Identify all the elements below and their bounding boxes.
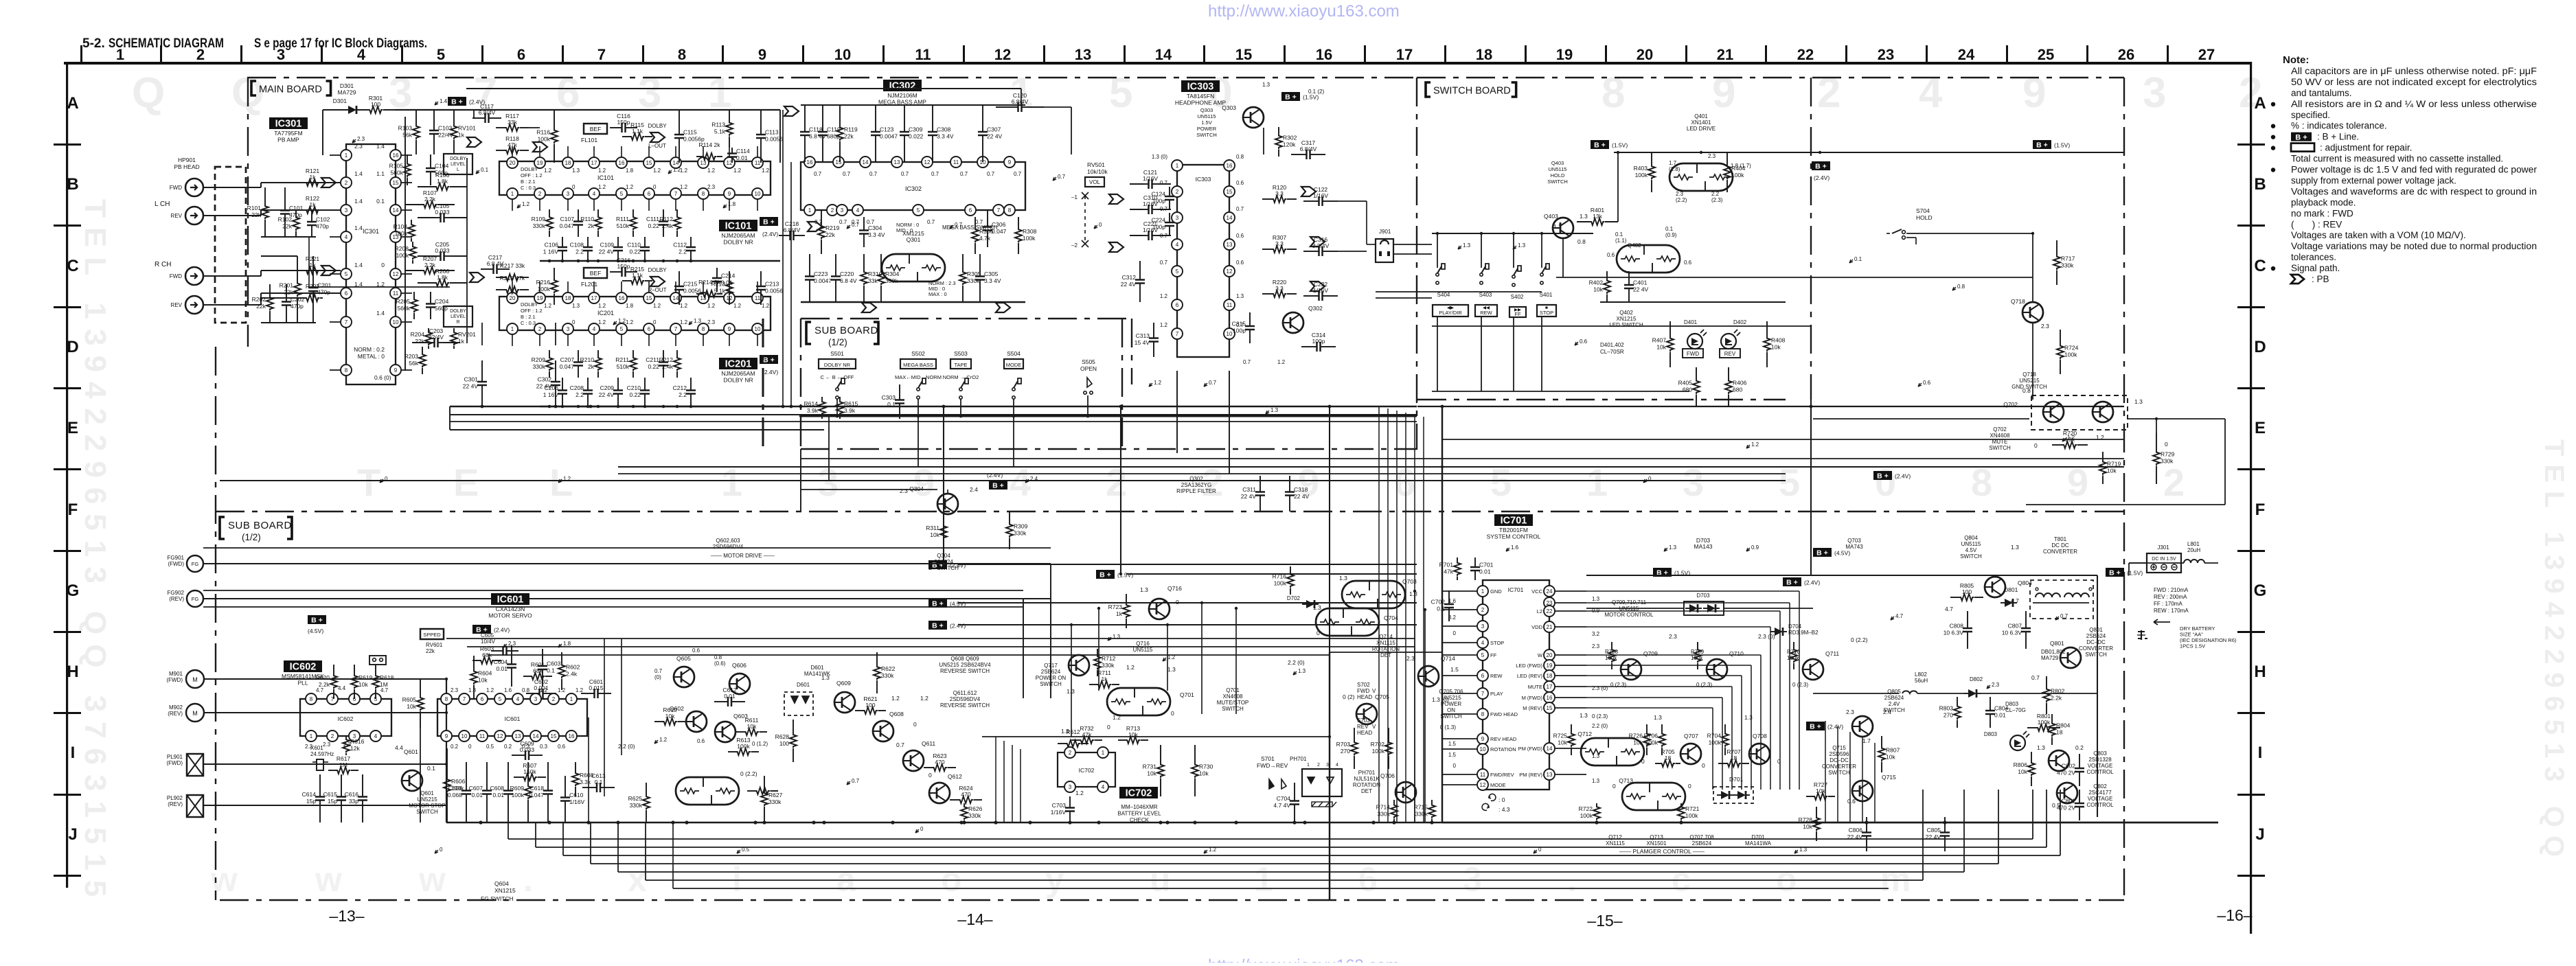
IC201 label box <box>719 358 757 369</box>
svg-text:1.3: 1.3 <box>694 318 702 324</box>
svg-text:3: 3 <box>1326 763 1329 768</box>
capacitor C110 <box>644 237 646 242</box>
svg-text:IC601: IC601 <box>497 595 524 606</box>
row tick right 7 <box>2237 712 2265 714</box>
IC101 pin 17 <box>589 157 600 168</box>
svg-text:24: 24 <box>1547 588 1553 595</box>
svg-text:0.0056: 0.0056 <box>683 288 701 295</box>
svg-text:NJM2106M: NJM2106M <box>887 92 917 99</box>
svg-text:10k: 10k <box>1771 344 1781 351</box>
resistor R608 <box>575 762 576 772</box>
svg-text:VCC: VCC <box>1531 588 1542 595</box>
svg-text:0.2: 0.2 <box>451 744 459 750</box>
svg-text:0.1: 0.1 <box>1437 606 1445 612</box>
transistor Q803 <box>2049 750 2069 771</box>
svg-text:C614: C614 <box>302 791 317 798</box>
svg-text:C : 0.3: C : 0.3 <box>521 185 536 191</box>
wire vertical rail <box>1810 400 1812 575</box>
svg-text:1.2: 1.2 <box>1160 322 1168 328</box>
svg-text:HEADPHONE AMP: HEADPHONE AMP <box>1175 100 1226 106</box>
B+ badge IC201 <box>760 355 778 364</box>
wire j901 line <box>1376 297 1432 299</box>
IC701 pin 20 W <box>1544 649 1555 660</box>
svg-text:PLAY: PLAY <box>1490 691 1503 697</box>
capacitor C216 <box>610 271 616 273</box>
capacitor C109 <box>617 237 619 242</box>
svg-text:100k: 100k <box>737 743 750 750</box>
svg-text:D802: D802 <box>1970 676 1983 682</box>
IC101 pin 14 <box>670 157 681 168</box>
svg-text:0.6: 0.6 <box>558 744 566 750</box>
svg-text:14: 14 <box>1547 746 1553 752</box>
svg-text:REV: REV <box>1724 351 1736 357</box>
svg-text:8: 8 <box>1008 207 1012 214</box>
dolby level L box <box>444 154 472 174</box>
svg-text:DC DC: DC DC <box>2051 542 2069 549</box>
wire <box>246 275 261 277</box>
svg-text:ROTATION: ROTATION <box>1490 746 1516 752</box>
svg-text:0.7: 0.7 <box>839 219 847 225</box>
capacitor C608 <box>508 762 509 785</box>
svg-text:1.2: 1.2 <box>680 168 688 174</box>
svg-text:Q304: Q304 <box>909 485 924 492</box>
svg-text:FG: FG <box>192 596 199 602</box>
svg-text:11: 11 <box>479 733 486 739</box>
svg-text:1/16V: 1/16V <box>1051 809 1067 816</box>
svg-text:MODE: MODE <box>1490 782 1506 788</box>
capacitor C105 <box>418 217 435 218</box>
B+ badge IC303 <box>1281 92 1300 101</box>
svg-text:R618: R618 <box>380 674 394 681</box>
IC101 pin 5 <box>616 188 627 199</box>
connector 2pin <box>369 656 386 665</box>
svg-text:TB2001FM: TB2001FM <box>1499 527 1528 533</box>
svg-text:20: 20 <box>510 295 516 301</box>
svg-text:1.3: 1.3 <box>1236 293 1244 299</box>
resistor R707 <box>1718 763 1726 764</box>
IC602 label box <box>284 660 322 672</box>
wire <box>1813 418 2029 419</box>
wire <box>800 449 801 511</box>
svg-text:UN5115: UN5115 <box>1133 647 1153 653</box>
capacitor C307 <box>982 105 983 126</box>
column tick 15 <box>1284 45 1286 62</box>
svg-text:3.3 4V: 3.3 4V <box>984 277 1001 284</box>
wire vertical <box>790 162 792 406</box>
svg-text:2: 2 <box>345 180 348 186</box>
svg-text:HOLD: HOLD <box>1916 214 1933 221</box>
svg-text:0: 0 <box>468 744 472 750</box>
svg-text:1.2: 1.2 <box>653 303 661 309</box>
svg-text:0.7: 0.7 <box>1209 380 1217 386</box>
svg-text:(1.5V): (1.5V) <box>1303 94 1319 101</box>
svg-text:I: I <box>2258 744 2263 762</box>
svg-text:M902: M902 <box>169 704 183 711</box>
svg-text:100k: 100k <box>512 792 525 798</box>
svg-text:9: 9 <box>2022 69 2046 117</box>
svg-text:OFF : 1.2: OFF : 1.2 <box>521 172 543 179</box>
resistor R604 <box>473 656 475 670</box>
svg-text:1.6: 1.6 <box>1511 544 1519 551</box>
svg-text:2.2: 2.2 <box>575 249 584 255</box>
wire <box>322 110 323 155</box>
sub board outline top <box>216 511 2124 512</box>
svg-text:LED DRIVE: LED DRIVE <box>1687 126 1716 132</box>
svg-text:22: 22 <box>1797 46 1814 63</box>
IC303 pin 16 <box>1224 160 1235 171</box>
svg-text:1.4: 1.4 <box>376 143 385 150</box>
svg-text:R606: R606 <box>451 778 466 785</box>
resistor R801 <box>2027 727 2036 728</box>
svg-text:1: 1 <box>1176 163 1179 169</box>
wire b+ rail <box>323 109 348 111</box>
svg-text:IC702: IC702 <box>1079 767 1095 774</box>
svg-text:RV601: RV601 <box>426 642 443 648</box>
svg-text:R101: R101 <box>247 205 262 211</box>
svg-text:2: 2 <box>538 191 542 197</box>
svg-text:5: 5 <box>1109 69 1132 117</box>
IC701 label box <box>1494 514 1533 526</box>
svg-text:F: F <box>68 501 78 519</box>
capacitor C318 <box>1289 476 1290 486</box>
svg-text:V: V <box>1372 724 1376 730</box>
svg-text:SWITCH: SWITCH <box>1960 553 1982 560</box>
resistor R403 <box>1651 152 1652 165</box>
svg-text:5: 5 <box>499 696 502 702</box>
svg-text:STOP: STOP <box>1540 310 1553 316</box>
dolby level R box <box>444 306 472 327</box>
IC302 pin 13 <box>891 157 902 168</box>
svg-text:http://www.xiaoyu163.com: http://www.xiaoyu163.com <box>1208 956 1400 963</box>
svg-text:100k: 100k <box>1635 172 1648 179</box>
svg-text:14: 14 <box>533 733 539 739</box>
resistor R120 <box>1262 198 1272 200</box>
resistor R404 <box>1726 152 1728 165</box>
svg-text:DOLBY: DOLBY <box>450 309 466 314</box>
svg-text:330k: 330k <box>533 222 546 229</box>
row tick right 9 <box>2237 875 2265 877</box>
svg-text:RIPPLE FILTER: RIPPLE FILTER <box>1176 488 1216 494</box>
svg-text:MUTE/STOP: MUTE/STOP <box>1217 700 1249 706</box>
svg-text:2.4: 2.4 <box>1030 476 1038 482</box>
svg-text:Voltage variations may be note: Voltage variations may be noted due to n… <box>2291 241 2537 251</box>
svg-text:C804: C804 <box>1994 705 2009 712</box>
svg-text:Q707,708: Q707,708 <box>1689 834 1714 840</box>
svg-text:ON: ON <box>1447 707 1455 713</box>
IC201 pin 20 <box>507 292 518 303</box>
svg-text:2: 2 <box>1317 763 1320 768</box>
wire <box>1229 371 1230 474</box>
svg-text:LED (FWD): LED (FWD) <box>1516 663 1542 669</box>
wire connector 273 <box>203 187 246 188</box>
svg-text:R111: R111 <box>616 216 629 222</box>
wire fan vertical 2 <box>562 823 564 855</box>
svg-text:C113: C113 <box>765 129 779 136</box>
IC302 pin 7 <box>993 205 1004 216</box>
svg-text:6.8 4V: 6.8 4V <box>809 133 826 140</box>
svg-text:150p: 150p <box>617 119 630 126</box>
resistor R216 <box>554 268 555 279</box>
svg-text:0: 0 <box>1107 724 1110 731</box>
svg-text:Q609: Q609 <box>836 680 851 687</box>
svg-text:4: 4 <box>1919 69 1943 117</box>
resistor R112 <box>676 209 678 216</box>
svg-text:0.7: 0.7 <box>2031 674 2040 681</box>
svg-text:2.3: 2.3 <box>323 741 331 748</box>
svg-text:UN5215 2SB624BV4: UN5215 2SB624BV4 <box>939 662 991 668</box>
resistor R613 <box>728 751 736 752</box>
svg-text:RV101: RV101 <box>458 125 476 132</box>
svg-text:R213: R213 <box>711 281 726 288</box>
B+ badge rail 1 <box>928 560 947 569</box>
svg-text:0 (2.3): 0 (2.3) <box>1592 713 1608 720</box>
svg-text:4: 4 <box>345 234 348 240</box>
capacitor C209 <box>617 378 619 384</box>
svg-text:1.3: 1.3 <box>1654 714 1662 721</box>
svg-text:PM (FWD): PM (FWD) <box>1518 746 1543 752</box>
transistor Q601 <box>402 770 422 791</box>
svg-text:0.7: 0.7 <box>1243 359 1251 365</box>
svg-text:C605: C605 <box>481 632 494 639</box>
svg-text:0: 0 <box>2165 441 2168 448</box>
svg-text:1PCS 1.5V: 1PCS 1.5V <box>2180 643 2205 649</box>
svg-text:8: 8 <box>1602 69 1625 117</box>
IC201 pin 7 <box>670 323 681 334</box>
svg-text:2.2k: 2.2k <box>424 262 436 268</box>
transistor Q605 <box>674 667 694 687</box>
svg-text:B +: B + <box>2036 141 2048 150</box>
svg-text:S503: S503 <box>954 350 968 357</box>
resistor R609 <box>527 762 529 785</box>
svg-text:22 4V: 22 4V <box>1241 493 1257 500</box>
svg-text:1.3: 1.3 <box>1580 712 1588 719</box>
svg-text:1.5V: 1.5V <box>1201 119 1211 126</box>
svg-text:MOTOR STOP: MOTOR STOP <box>409 803 446 809</box>
svg-text:R625: R625 <box>628 795 643 802</box>
wire vertical rail lower <box>1329 652 1330 900</box>
forest rail right <box>466 158 468 343</box>
wire power riser 4 <box>1874 743 1876 823</box>
svg-text:1.3: 1.3 <box>1744 714 1753 721</box>
svg-text:M: M <box>192 710 198 717</box>
IC201 pin 10 <box>752 323 763 334</box>
svg-text:A: A <box>2254 94 2266 113</box>
svg-text:2.2: 2.2 <box>679 391 687 398</box>
transistor Q704 pair <box>1316 608 1379 636</box>
svg-text:PLAY/DIR: PLAY/DIR <box>1439 310 1462 316</box>
upper sub board inner divider <box>1121 319 1123 449</box>
svg-text:2.3: 2.3 <box>1846 709 1854 715</box>
svg-text:1: 1 <box>1254 860 1273 899</box>
svg-text:tolerances.: tolerances. <box>2291 252 2336 262</box>
transistor Q602 <box>686 711 707 732</box>
B+ badge IC101 <box>760 217 778 226</box>
svg-text:3.9k: 3.9k <box>844 407 856 414</box>
svg-text:E: E <box>2255 419 2266 437</box>
svg-text:(2.4V): (2.4V) <box>950 562 966 569</box>
svg-text:—— MOTOR DRIVE ——: —— MOTOR DRIVE —— <box>711 553 775 559</box>
svg-text:6: 6 <box>1358 860 1378 899</box>
svg-text:17: 17 <box>1547 684 1553 690</box>
svg-text:OFF : 1.2: OFF : 1.2 <box>521 308 543 314</box>
svg-text:RV501: RV501 <box>1087 161 1105 168</box>
svg-text:19: 19 <box>537 295 543 301</box>
svg-text:560k: 560k <box>398 305 411 312</box>
svg-text:0: 0 <box>1171 710 1174 717</box>
svg-text:R406: R406 <box>1733 380 1747 387</box>
IC601 pin 2 <box>548 693 559 704</box>
resistor R101 <box>264 187 266 205</box>
svg-text:1.2: 1.2 <box>618 318 626 324</box>
svg-text:10k: 10k <box>2107 468 2117 474</box>
wire connector 314 <box>203 215 246 216</box>
B+ badge 2.4V main <box>448 97 466 106</box>
svg-text:3.9k: 3.9k <box>807 407 819 414</box>
capacitor C106 <box>562 237 563 242</box>
IC301 pin 5 <box>341 268 352 279</box>
svg-text:A: A <box>67 94 78 113</box>
svg-text:2: 2 <box>1817 69 1840 117</box>
IC302 pin 9 <box>1004 157 1015 168</box>
svg-text:1.2: 1.2 <box>920 695 928 702</box>
wire <box>1513 317 1514 391</box>
svg-text:9: 9 <box>394 367 398 373</box>
svg-text:2.2 (0): 2.2 (0) <box>1592 723 1608 729</box>
svg-text:0.7: 0.7 <box>654 668 663 674</box>
svg-text:IC702: IC702 <box>1126 788 1152 799</box>
svg-text:470p: 470p <box>317 289 330 296</box>
resistor R713 <box>1118 739 1126 741</box>
svg-text:12: 12 <box>393 271 399 277</box>
svg-text:0: 0 <box>920 826 924 832</box>
svg-text:1M: 1M <box>339 761 347 768</box>
svg-text:330k: 330k <box>1415 811 1428 818</box>
wire bus under IC101 <box>540 260 780 262</box>
column tick 23 <box>1926 45 1928 62</box>
capacitor C603 <box>542 649 543 660</box>
svg-text:Q712: Q712 <box>1608 834 1622 840</box>
svg-text:2.3: 2.3 <box>707 319 716 325</box>
wire fan vertical 0 <box>508 823 509 839</box>
svg-text:0.7: 0.7 <box>955 222 963 228</box>
svg-text:21: 21 <box>1547 624 1553 630</box>
svg-text:: 4.3: : 4.3 <box>1498 806 1510 813</box>
svg-text:1.2: 1.2 <box>540 687 548 693</box>
svg-text:D: D <box>2254 338 2266 356</box>
svg-text:Signal path.: Signal path. <box>2291 263 2340 273</box>
switch board outline bottom <box>1417 399 1786 400</box>
svg-text:R119: R119 <box>844 126 858 133</box>
right border <box>2250 62 2252 934</box>
svg-text:5.1k: 5.1k <box>714 128 726 135</box>
svg-text:2SA1362YG: 2SA1362YG <box>1181 482 1211 488</box>
svg-text:0.6: 0.6 <box>1923 380 1931 386</box>
svg-text:0.8: 0.8 <box>1236 154 1244 160</box>
svg-text:0: 0 <box>1176 599 1179 606</box>
svg-text:1.3: 1.3 <box>1140 586 1148 593</box>
svg-text:R302: R302 <box>1283 135 1297 141</box>
svg-text:Q608: Q608 <box>889 711 904 717</box>
svg-text:Q302: Q302 <box>1308 305 1323 312</box>
svg-text:XN4608: XN4608 <box>1223 693 1243 700</box>
svg-text:C618: C618 <box>530 785 545 792</box>
svg-text:R619: R619 <box>358 674 373 681</box>
svg-text:0.0056: 0.0056 <box>765 288 783 295</box>
transistor Q716 <box>1149 599 1170 619</box>
B+ badge switch board 1.5V <box>1591 140 1609 149</box>
svg-text:C220: C220 <box>840 271 854 277</box>
svg-text:2SB624: 2SB624 <box>1692 840 1712 847</box>
IC601 pin 4 <box>512 693 523 704</box>
IC101 pin 11 <box>752 157 763 168</box>
resistor R122 <box>302 209 305 211</box>
svg-text:C: C <box>67 257 78 275</box>
IC101 pin 16 <box>616 157 627 168</box>
svg-text:R723: R723 <box>1108 603 1123 610</box>
resistor R310 <box>863 254 865 271</box>
column tick 1 <box>160 45 162 62</box>
svg-text:0: 0 <box>1702 762 1705 769</box>
connector REV 444 <box>185 296 203 314</box>
svg-text:10: 10 <box>1480 746 1486 752</box>
svg-text:(2.2): (2.2) <box>1676 197 1687 203</box>
svg-text:1.1k: 1.1k <box>632 272 643 279</box>
svg-text:NORM : 0.2: NORM : 0.2 <box>354 346 385 353</box>
svg-text:C124: C124 <box>1152 191 1166 198</box>
capacitor C616 <box>362 774 363 791</box>
IC702 pin 1 <box>1097 747 1108 758</box>
wire <box>1084 196 1086 244</box>
wire vertical rail <box>1329 406 1330 652</box>
svg-text:5: 5 <box>1176 268 1179 275</box>
svg-text:R408: R408 <box>1771 337 1786 344</box>
wire <box>1021 89 1022 105</box>
IC302 pin 8 <box>1004 205 1015 216</box>
svg-text:C204: C204 <box>435 298 449 305</box>
svg-text:20: 20 <box>1637 46 1653 63</box>
svg-text:1.2: 1.2 <box>544 168 552 174</box>
capacitor C306 <box>987 210 988 221</box>
resistor R726 <box>1646 724 1648 733</box>
svg-text:FWD/REV: FWD/REV <box>1490 772 1514 778</box>
capacitor C208 <box>587 378 589 384</box>
svg-text:VOLTAGE: VOLTAGE <box>2088 763 2113 769</box>
svg-text:0.01: 0.01 <box>492 792 504 798</box>
wire power riser 1 <box>1837 726 1838 823</box>
svg-text:B +: B + <box>1810 723 1821 731</box>
row tick right 0 <box>2237 143 2265 146</box>
svg-text:7: 7 <box>674 191 678 197</box>
svg-text:0.022: 0.022 <box>909 133 924 140</box>
column tick 9 <box>802 45 804 62</box>
diode D704 <box>1770 628 1787 636</box>
svg-text:Q611,612: Q611,612 <box>953 690 977 696</box>
resistor R304 <box>880 254 882 271</box>
IC601 pin 12 <box>494 731 505 741</box>
svg-text:R403: R403 <box>1634 165 1648 172</box>
svg-text:10 6.3V: 10 6.3V <box>1944 630 1964 636</box>
resistor R802 <box>2046 676 2047 688</box>
svg-text:11: 11 <box>915 46 931 63</box>
column tick 5 <box>481 45 483 62</box>
svg-text:19: 19 <box>1547 663 1553 669</box>
wire ic701 fan 21 <box>1586 626 1770 628</box>
svg-text:10k: 10k <box>665 713 675 720</box>
svg-text:15: 15 <box>551 733 557 739</box>
svg-text:16: 16 <box>619 160 625 166</box>
svg-text:B : 2.1: B : 2.1 <box>521 179 536 185</box>
svg-text:(1/2): (1/2) <box>828 337 847 347</box>
